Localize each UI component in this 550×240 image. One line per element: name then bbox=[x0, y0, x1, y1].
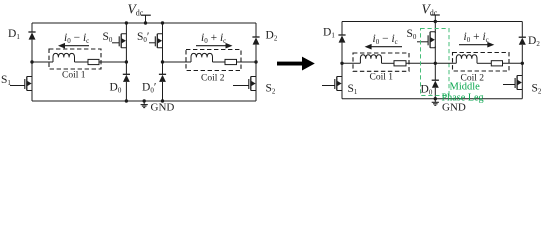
transistor S1 (right circuit) bbox=[322, 77, 342, 91]
transistor S0 (right circuit) bbox=[417, 32, 435, 48]
wire: D1 anode to node A bbox=[31, 40, 33, 62]
coil L1 right (Coil 1) wire to resistor bbox=[382, 62, 395, 64]
annotation box: Middle Phase Leg (green dashed) bbox=[421, 29, 450, 96]
node A junction bbox=[30, 60, 33, 63]
junction: ground on bottom rail bbox=[143, 99, 146, 102]
wire: top rail to D2 cathode bbox=[255, 23, 257, 37]
wire: node C to D0' cathode bbox=[162, 62, 164, 74]
transistor S0 bbox=[112, 34, 126, 48]
coil L1 (Coil 1) wire to resistor bbox=[75, 61, 89, 63]
svg-text:Coil 2: Coil 2 bbox=[461, 74, 485, 84]
diode D0 bbox=[123, 74, 130, 82]
wire: D0' anode to bottom rail bbox=[162, 82, 164, 101]
svg-text:Coil 2: Coil 2 bbox=[201, 74, 225, 84]
node F junction bbox=[521, 62, 524, 65]
coil L1 (Coil 1) inductor bbox=[53, 53, 75, 62]
junction: Vdc on top rail bbox=[144, 21, 147, 24]
wire: D1 anode to node E bbox=[341, 43, 343, 64]
coil L2 (Coil 2) box bbox=[186, 50, 241, 71]
diode D1 (right circuit) bbox=[338, 35, 345, 43]
wire: S2 source to bottom rail bbox=[255, 91, 257, 102]
svg-text:Coil 1: Coil 1 bbox=[370, 72, 394, 82]
transistor S2 (right circuit) bbox=[503, 76, 522, 90]
wire: top rail to S0' drain bbox=[162, 23, 164, 34]
wire: S0' source to node C bbox=[162, 48, 164, 63]
svg-text:Coil 1: Coil 1 bbox=[62, 71, 86, 81]
wire: bottom GND rail (right circuit) bbox=[342, 98, 522, 100]
wire: top DC rail (left circuit) bbox=[32, 22, 256, 24]
wire: top rail to D1 cathode (right) bbox=[341, 22, 343, 36]
junction: S0' drain on top rail bbox=[161, 21, 164, 24]
node B junction bbox=[125, 60, 128, 63]
wire: node E to Coil 1 (right) bbox=[342, 62, 360, 64]
wire: D2 anode to node D bbox=[255, 45, 257, 62]
junction: S0 drain on top rail bbox=[125, 21, 128, 24]
wire: D2 anode to node F bbox=[521, 45, 523, 64]
coil L2 right (Coil 2) wire to resistor bbox=[477, 62, 491, 64]
coil L2 (Coil 2) inductor bbox=[191, 53, 213, 62]
diode D1 bbox=[28, 32, 35, 40]
wire: top rail to S0 drain (right) bbox=[434, 22, 436, 34]
coil L2 right (Coil 2) inductor bbox=[456, 55, 477, 64]
ground (right circuit) bbox=[432, 99, 439, 106]
junction: D0 on bottom rail bbox=[125, 99, 128, 102]
wire: S2 source to bottom rail (right) bbox=[521, 90, 523, 99]
wire: bottom GND rail (left circuit) bbox=[32, 100, 256, 102]
svg-text:D0′: D0′ bbox=[142, 82, 156, 95]
ground (left circuit) bbox=[141, 101, 148, 108]
wire: node G to D0 cathode (right) bbox=[434, 63, 436, 80]
wire: node A to S1 drain bbox=[31, 62, 33, 77]
node E junction bbox=[340, 62, 343, 65]
current arrow i0+ic (left circuit) bbox=[196, 43, 233, 49]
coil L1 (Coil 1) resistor bbox=[88, 59, 99, 64]
wire: S0 source to node G bbox=[434, 47, 436, 64]
node G junction bbox=[434, 62, 437, 65]
wire: node D to S2 drain bbox=[255, 62, 257, 77]
current arrow i0-ic (left circuit) bbox=[58, 43, 89, 49]
wire: D0 anode to bottom rail (right) bbox=[434, 88, 436, 99]
wire: Coil 1 to node B bbox=[99, 61, 126, 63]
wire: D0 anode to bottom rail bbox=[125, 82, 127, 101]
wire: Coil 2 to node F bbox=[503, 62, 523, 64]
wire: node A to Coil 1 bbox=[32, 61, 53, 63]
node D junction bbox=[254, 60, 257, 63]
coil L1 right (Coil 1) box bbox=[353, 53, 409, 71]
node C junction bbox=[161, 60, 164, 63]
wire: node E to S1 drain bbox=[341, 63, 343, 76]
wire: S1 source to bottom rail bbox=[31, 91, 33, 102]
diode D0' bbox=[159, 74, 166, 82]
transistor S1 bbox=[10, 77, 32, 91]
current arrow i0+ic (right circuit) bbox=[459, 42, 494, 48]
wire: Coil 2 to node D bbox=[237, 61, 257, 63]
supply Vdc terminal (left circuit) bbox=[141, 15, 151, 23]
coil L2 right (Coil 2) resistor bbox=[491, 61, 502, 66]
big transformation arrow between circuits bbox=[277, 57, 315, 71]
coil L1 (Coil 1) box bbox=[49, 49, 101, 69]
diode D2 bbox=[252, 37, 259, 45]
coil L1 right (Coil 1) inductor bbox=[360, 55, 381, 64]
wire: top rail to D1 cathode bbox=[31, 23, 33, 32]
transistor S2 bbox=[233, 77, 256, 91]
wire: node C to Coil 2 bbox=[163, 61, 192, 63]
current arrow i0-ic (right circuit) bbox=[365, 44, 402, 50]
transistor S0' bbox=[149, 34, 163, 48]
wire: S1 source to bottom rail (right) bbox=[341, 91, 343, 99]
diode D0 (right circuit) bbox=[432, 80, 439, 88]
junction: Vdc / S0 drain on top rail bbox=[434, 20, 437, 23]
coil L2 right (Coil 2) box bbox=[453, 53, 510, 72]
wire: Coil 1 to node G bbox=[406, 62, 435, 64]
wire: S0 source to node B bbox=[125, 48, 127, 63]
coil L2 (Coil 2) resistor bbox=[225, 59, 237, 64]
svg-text:Phase Leg: Phase Leg bbox=[442, 93, 484, 104]
coil L2 (Coil 2) wire to resistor bbox=[213, 61, 226, 63]
supply Vdc terminal (right circuit) bbox=[431, 15, 440, 22]
wire: top rail to S0 drain bbox=[125, 23, 127, 34]
wire: node F to S2 drain bbox=[521, 63, 523, 75]
diode D2 (right circuit) bbox=[519, 37, 526, 45]
junction: D0' on bottom rail bbox=[161, 99, 164, 102]
wire: node B to D0 cathode bbox=[125, 62, 127, 74]
svg-text:GND: GND bbox=[151, 102, 175, 114]
svg-text:S0′: S0′ bbox=[137, 31, 149, 44]
wire: top rail to D2 cathode (right) bbox=[521, 22, 523, 38]
wire: node G to Coil 2 (right) bbox=[435, 62, 456, 64]
coil L1 right (Coil 1) resistor bbox=[394, 61, 406, 66]
wire: top DC rail (right circuit) bbox=[342, 21, 522, 23]
junction: D0 / ground on bottom rail (right) bbox=[434, 97, 437, 100]
